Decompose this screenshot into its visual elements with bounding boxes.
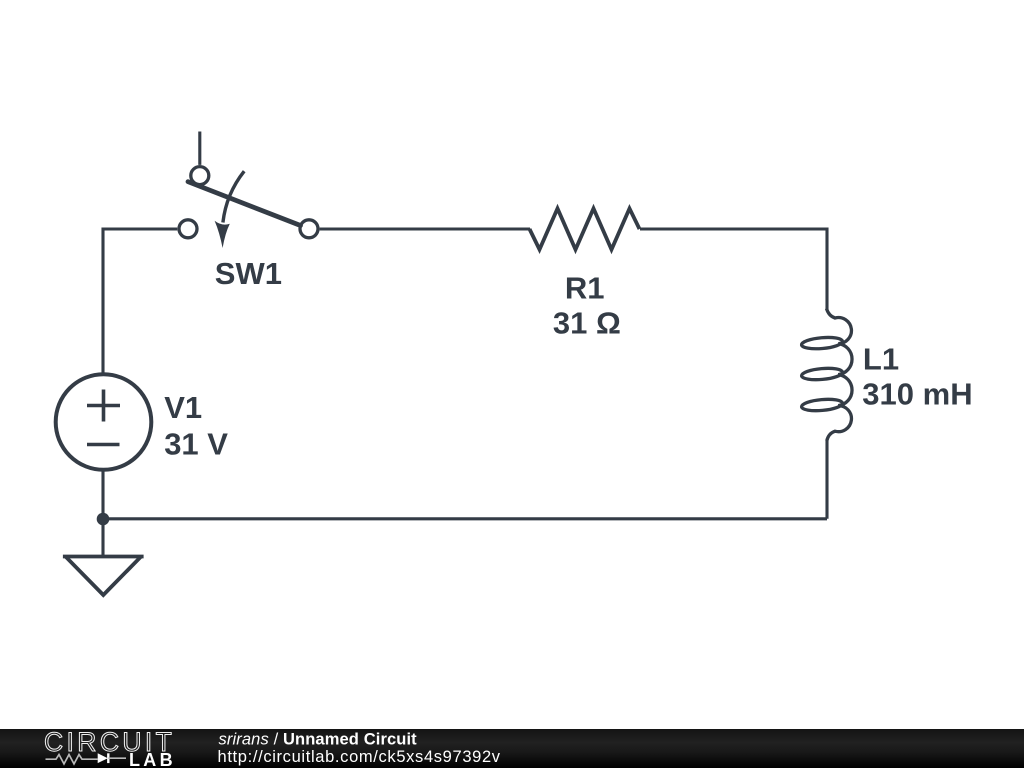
switch arrow head [215,221,230,248]
svg-text:L1: L1 [863,341,899,376]
logo diode [98,753,108,763]
wire junction to ground [101,519,104,556]
wire bottom-right vertical up to inductor [825,441,828,519]
resistor R1 [530,209,640,250]
wire V1 bottom to junction [101,469,104,519]
ground [63,557,144,596]
svg-text:31 Ω: 31 Ω [553,306,621,341]
node junction dot [97,513,110,526]
svg-text:V1: V1 [164,390,202,425]
wire switch to resistor [320,227,530,230]
wire switch upper stub [198,132,201,165]
wire top-left horizontal and left vertical down to V1 [103,229,177,375]
inductor L1 [801,309,852,441]
logo resistor squiggle [46,755,98,764]
svg-text:srirans / Unnamed Circuit: srirans / Unnamed Circuit [219,731,418,749]
voltage source V1 [56,374,152,470]
switch SW1 [179,132,318,249]
wire bottom horizontal [103,517,827,520]
svg-text:LAB: LAB [129,750,176,768]
switch upper terminal circle [191,167,209,185]
switch right terminal circle [300,220,318,238]
svg-text:http://circuitlab.com/ck5xs4s9: http://circuitlab.com/ck5xs4s97392v [218,748,501,766]
svg-text:310 mH: 310 mH [862,377,972,412]
footer bar [0,729,1024,768]
switch left terminal circle [179,220,197,238]
svg-text:SW1: SW1 [215,256,282,291]
switch actuation arc [223,171,244,222]
svg-text:31 V: 31 V [164,426,228,461]
svg-text:R1: R1 [565,270,605,305]
switch blade [188,182,301,226]
wire inductor top to corner and left to resistor [640,229,827,309]
